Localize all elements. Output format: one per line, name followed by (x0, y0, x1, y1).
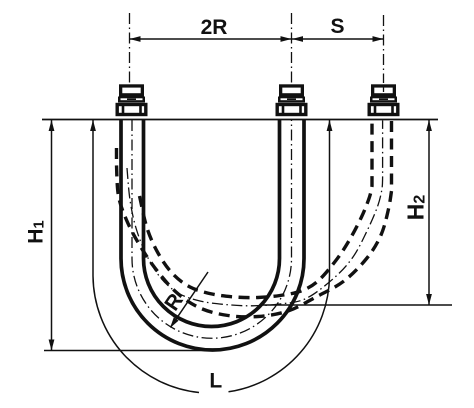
svg-text:S: S (330, 15, 344, 38)
svg-text:L: L (209, 370, 222, 393)
svg-text:2R: 2R (201, 16, 228, 39)
